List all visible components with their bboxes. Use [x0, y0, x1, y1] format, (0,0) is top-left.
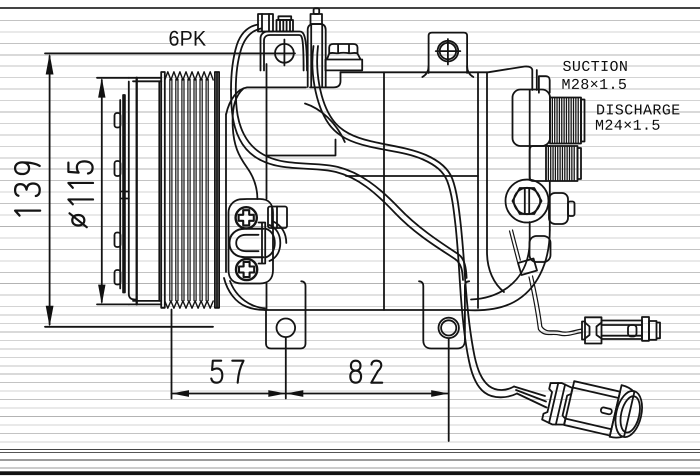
label 139 — [15, 162, 40, 215]
lug right stubs — [419, 281, 469, 310]
clutch tab 4 — [115, 270, 121, 285]
bundle line b — [465, 280, 514, 390]
body vertical mid — [383, 72, 385, 310]
suction port step — [539, 76, 550, 93]
top edge front — [310, 72, 341, 87]
clutch tab 2 — [115, 161, 121, 176]
label 6PK — [169, 31, 205, 46]
clutch mid bottom corner — [129, 294, 137, 300]
clutch disc face edge — [136, 78, 138, 305]
cable2 line b — [317, 46, 465, 280]
label M24x1.5 — [596, 120, 660, 130]
rear inner wall — [529, 90, 531, 240]
body S-curve — [233, 89, 258, 200]
discharge block — [530, 146, 550, 181]
coil wire left a — [231, 25, 258, 91]
rear lower tab — [530, 236, 551, 262]
front bottom curve — [224, 278, 265, 310]
dim bottom line — [172, 393, 449, 395]
dim arrow 82 right — [431, 390, 449, 397]
dim 115 ext top — [97, 77, 129, 79]
small connector neck — [582, 322, 585, 340]
hex bolt base — [325, 54, 362, 71]
body seam line — [346, 175, 478, 177]
clutch outer line — [119, 100, 121, 289]
suction threads — [550, 98, 581, 144]
rear head line A — [477, 72, 479, 308]
bracket2 feet — [422, 66, 473, 77]
small connector slot — [628, 325, 637, 337]
sensor wire lower — [529, 276, 582, 336]
dim 139 arrow up — [46, 54, 54, 75]
dim mid ext line — [285, 338, 287, 399]
clutch tab 1 — [115, 113, 121, 128]
top block A — [258, 14, 273, 32]
top edge main — [341, 66, 533, 90]
dim arrow 57 right — [268, 390, 286, 397]
clutch front plate — [123, 95, 125, 293]
hose clamp block — [259, 223, 266, 264]
cable1 line b — [236, 90, 467, 278]
dim 115 line — [101, 80, 103, 302]
coil top stub — [314, 8, 320, 14]
big connector taper — [514, 387, 547, 408]
dim 139 ext top — [45, 52, 295, 54]
coil bracket — [308, 24, 326, 87]
hex plug — [513, 188, 542, 214]
lug right — [423, 310, 465, 349]
dim 115 arrow up — [98, 78, 105, 98]
label DISCHARGE — [597, 104, 679, 114]
bottom rules — [0, 450, 700, 469]
dim 115 ext bottom — [97, 303, 129, 305]
label M28x1.5 — [562, 79, 626, 89]
manifold plate — [229, 199, 274, 284]
coil bracket lines — [311, 24, 322, 87]
lug left top stub — [301, 281, 305, 310]
small connector barrel — [602, 321, 643, 340]
clutch tab 3 — [115, 233, 121, 248]
lug left hole — [277, 319, 296, 338]
dim 115 arrow down — [98, 285, 105, 305]
manifold arcs — [266, 222, 287, 261]
sensor wire upper — [510, 230, 521, 262]
hex plug inner — [514, 188, 540, 214]
manifold block — [268, 207, 287, 229]
hose D-loop outer — [229, 229, 263, 257]
coil top connector — [311, 14, 323, 24]
rear corner inner — [471, 240, 530, 300]
clutch mid line — [128, 82, 130, 295]
front bottom curve inner — [230, 281, 265, 308]
hex bolt nut — [329, 44, 357, 53]
manifold screw 1 — [236, 207, 257, 228]
hose D-loop inner — [236, 235, 258, 251]
clutch disc right edge — [158, 81, 160, 301]
discharge threads — [546, 146, 578, 181]
bracket2 bolt — [438, 41, 459, 62]
dim 139 line — [49, 56, 51, 325]
coil wire left b — [236, 29, 261, 91]
dim 139 ext bottom — [45, 326, 213, 328]
pulley left flange — [161, 72, 165, 308]
front boss L — [267, 140, 336, 156]
pulley rib top edge — [165, 72, 213, 80]
clutch hub lines — [122, 191, 129, 193]
rear outer edge — [549, 181, 551, 230]
dim 139 arrow down — [46, 306, 54, 327]
dim 57 ext line — [171, 310, 173, 399]
label SUCTION — [563, 61, 627, 71]
rear head line B — [487, 72, 504, 292]
bundle line a — [460, 281, 517, 397]
discharge thread cap — [578, 148, 582, 179]
dim arrow 82 left — [286, 390, 304, 397]
dim right ext line — [448, 339, 450, 442]
bracket1 — [261, 32, 308, 71]
rear edge second line — [536, 70, 538, 90]
front face line — [225, 114, 227, 272]
top block B — [277, 20, 294, 32]
big connector barrel — [564, 381, 620, 435]
label 82 — [350, 361, 382, 383]
small connector cap — [649, 321, 660, 340]
small connector body — [585, 317, 602, 343]
sensor wire clip — [518, 259, 537, 276]
pulley rib bottom edge — [165, 301, 213, 308]
top block B rim — [278, 16, 291, 20]
manifold screw 2 — [236, 259, 257, 280]
pulley rib grooves — [170, 79, 208, 300]
hex plug boss — [506, 180, 549, 223]
pulley right flange — [215, 72, 219, 308]
front arc — [305, 104, 345, 143]
clutch disc top edge — [129, 78, 162, 82]
label dia115 — [68, 161, 93, 227]
rear small fitting — [549, 193, 568, 224]
rear bottom corner — [466, 230, 550, 310]
label 57 — [211, 361, 243, 383]
lug right hole — [439, 318, 459, 338]
front cylinder line — [266, 64, 268, 310]
dim arrow 57 left — [172, 390, 190, 397]
lug left — [266, 310, 306, 349]
bottom black bar — [0, 471, 700, 475]
suction port block — [513, 90, 551, 147]
bracket2 — [429, 33, 468, 73]
bracket1 bolt — [275, 44, 294, 63]
big connector collar — [542, 381, 573, 427]
front nose top — [226, 87, 306, 114]
body bottom edge — [265, 309, 466, 311]
small connector ring — [642, 317, 649, 341]
top rule — [0, 7, 700, 9]
big connector bell — [610, 385, 647, 442]
cable1 line a — [231, 90, 463, 280]
cable2 line a — [312, 46, 459, 281]
suction thread cap — [581, 100, 585, 142]
clutch disc bottom edge — [129, 301, 162, 305]
